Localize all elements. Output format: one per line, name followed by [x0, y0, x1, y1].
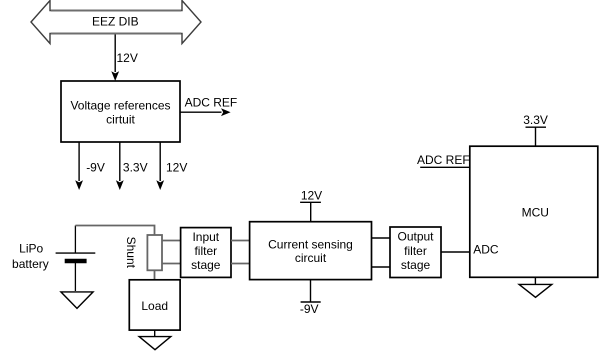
svg-text:12V: 12V	[301, 188, 322, 202]
wire input filter to current sensing bottom	[231, 263, 250, 265]
wire 12V supply from EEZ DIB to voltage references	[111, 35, 138, 82]
svg-text:cirtuit: cirtuit	[106, 112, 135, 126]
wire 3.3V output arrow	[116, 142, 148, 190]
wire current sensing to output filter bottom	[372, 266, 391, 268]
wire shunt sense bottom	[162, 263, 181, 265]
block Input filter stage	[181, 228, 231, 278]
wire input filter to current sensing top	[231, 240, 250, 242]
svg-text:ADC REF: ADC REF	[185, 96, 238, 110]
pin ADC REF (MCU)	[417, 153, 470, 167]
svg-text:Shunt: Shunt	[124, 237, 138, 269]
svg-text:battery: battery	[12, 257, 49, 271]
svg-text:Current sensing: Current sensing	[268, 237, 353, 251]
block MCU U2	[470, 146, 598, 277]
svg-text:Output: Output	[397, 230, 434, 244]
svg-text:ADC: ADC	[473, 242, 499, 256]
svg-text:stage: stage	[401, 258, 431, 272]
svg-text:Voltage references: Voltage references	[70, 98, 170, 112]
wire shunt sense top	[162, 240, 181, 242]
svg-text:3.3V: 3.3V	[123, 161, 148, 175]
svg-text:MCU: MCU	[522, 205, 549, 219]
bus EEZ DIB	[31, 1, 201, 44]
svg-text:EEZ DIB: EEZ DIB	[92, 14, 139, 28]
wire 12V output arrow	[156, 142, 187, 190]
svg-text:LiPo: LiPo	[19, 241, 43, 255]
wire ADC REF output arrow	[181, 96, 238, 117]
svg-text:-9V: -9V	[300, 302, 319, 316]
block Current sensing circuit	[250, 222, 372, 280]
svg-text:ADC REF: ADC REF	[417, 153, 470, 167]
svg-text:3.3V: 3.3V	[523, 113, 548, 127]
svg-text:12V: 12V	[166, 161, 187, 175]
svg-text:-9V: -9V	[86, 161, 105, 175]
power 12V terminal (current sensing)	[300, 188, 322, 221]
ground (load)	[139, 330, 171, 350]
battery B1 LiPo	[12, 226, 95, 292]
svg-text:12V: 12V	[117, 51, 138, 65]
power -9V terminal (current sensing)	[300, 280, 321, 316]
svg-text:Input: Input	[192, 230, 219, 244]
wire output filter to MCU ADC	[441, 251, 470, 253]
svg-text:filter: filter	[404, 244, 427, 258]
svg-text:stage: stage	[191, 258, 221, 272]
svg-text:filter: filter	[194, 244, 217, 258]
wire battery to shunt	[75, 226, 154, 236]
wire -9V output arrow	[75, 142, 105, 190]
ground (MCU)	[519, 277, 552, 297]
block Load	[129, 280, 180, 330]
block Voltage references circuit U1	[61, 81, 180, 142]
wire shunt to load	[154, 270, 156, 280]
svg-text:Load: Load	[141, 299, 168, 313]
wire current sensing to output filter top	[372, 237, 391, 239]
ground (battery)	[61, 292, 93, 309]
resistor Shunt R1	[124, 235, 162, 270]
power 3.3V terminal (MCU)	[523, 113, 548, 146]
block Output filter stage	[390, 227, 441, 278]
svg-text:circuit: circuit	[295, 251, 327, 265]
